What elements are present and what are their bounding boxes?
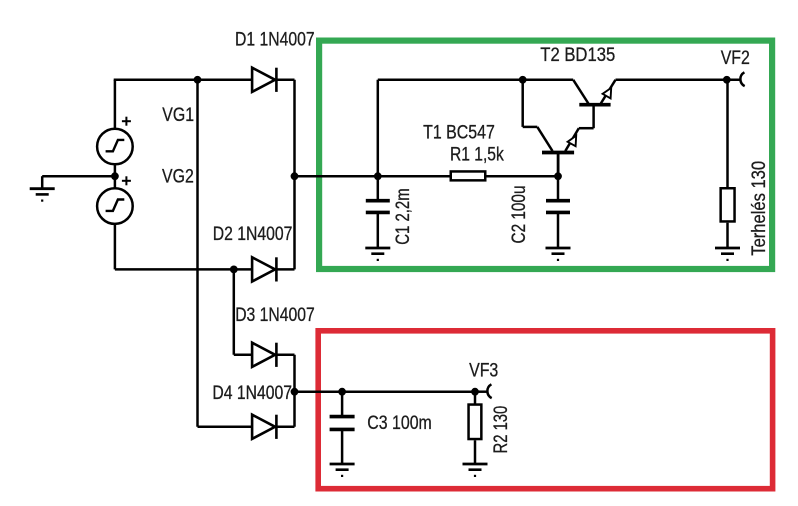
- svg-text:D4 1N4007: D4 1N4007: [212, 383, 292, 404]
- svg-text:R2 130: R2 130: [491, 406, 512, 454]
- svg-text:VG1: VG1: [162, 105, 194, 126]
- svg-text:R1 1,5k: R1 1,5k: [450, 145, 504, 166]
- svg-text:C1 2,2m: C1 2,2m: [393, 188, 414, 245]
- svg-text:VF3: VF3: [469, 361, 498, 382]
- svg-text:T2 BD135: T2 BD135: [540, 45, 615, 66]
- svg-text:Terhelés 130: Terhelés 130: [749, 161, 770, 256]
- svg-text:VG2: VG2: [162, 166, 194, 187]
- svg-text:C2 100u: C2 100u: [509, 186, 530, 244]
- svg-text:T1 BC547: T1 BC547: [423, 122, 495, 143]
- svg-text:D1 1N4007: D1 1N4007: [235, 30, 315, 51]
- svg-text:D3 1N4007: D3 1N4007: [235, 305, 315, 326]
- svg-text:D2 1N4007: D2 1N4007: [213, 224, 293, 245]
- svg-text:VF2: VF2: [721, 48, 750, 69]
- svg-text:C3 100m: C3 100m: [367, 413, 432, 434]
